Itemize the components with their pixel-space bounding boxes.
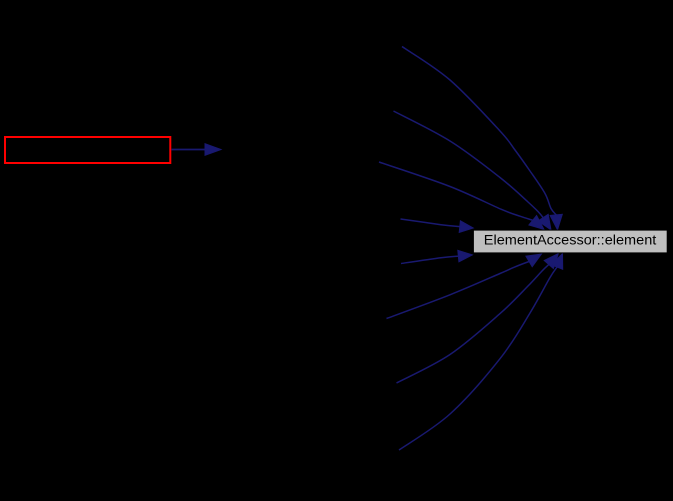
- svg-text:ElementAccessor::element: ElementAccessor::element: [484, 232, 657, 247]
